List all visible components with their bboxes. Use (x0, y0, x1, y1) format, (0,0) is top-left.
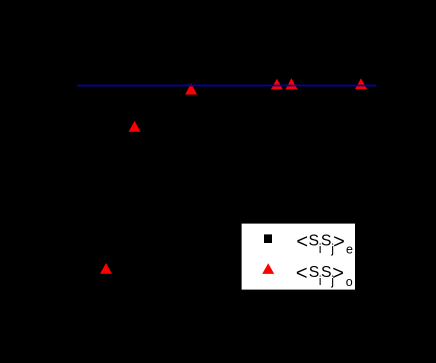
svg-text:<: < (296, 262, 308, 284)
svg-text:S: S (321, 264, 332, 281)
svg-text:S: S (309, 233, 320, 250)
svg-text:>: > (332, 262, 344, 284)
svg-text:>: > (333, 231, 345, 253)
svg-text:e: e (346, 243, 353, 257)
svg-text:S: S (321, 233, 332, 250)
svg-text:<: < (296, 231, 308, 253)
svg-text:o: o (346, 275, 353, 289)
svg-text:S: S (309, 264, 320, 281)
